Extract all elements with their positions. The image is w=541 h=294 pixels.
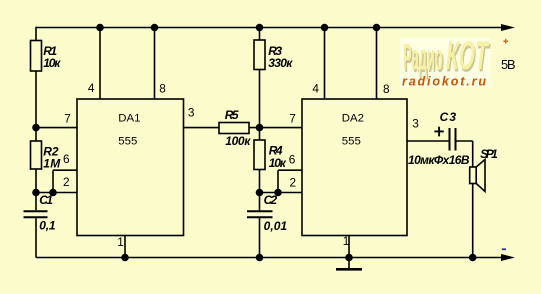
label C2 0,01	[264, 193, 288, 233]
svg-text:DA2: DA2	[342, 113, 364, 125]
wire: DA2 pin 6 stub	[278, 169, 302, 171]
svg-text:10к: 10к	[269, 156, 287, 170]
svg-text:8: 8	[159, 82, 166, 96]
pin label 4 DA2	[312, 81, 319, 95]
power label 5В	[501, 57, 516, 72]
label SP1	[480, 147, 498, 161]
svg-text:C2: C2	[264, 193, 278, 207]
resistor R1	[31, 41, 42, 72]
wire: left drop from rail to R1	[35, 27, 37, 41]
svg-text:КОТ: КОТ	[443, 33, 491, 78]
arrowhead bottom rail	[501, 254, 515, 261]
pin label 8	[159, 82, 166, 96]
svg-text:C3: C3	[440, 110, 457, 124]
pin label 1 DA2	[343, 234, 350, 248]
node junction pin6 link	[49, 189, 57, 197]
svg-text:1M: 1M	[43, 156, 61, 170]
svg-text:2: 2	[290, 175, 297, 189]
wire: R1 bottom to pin7 node	[35, 71, 37, 128]
node junction pin6 link DA2	[274, 189, 282, 197]
pin 1 DA2 wire	[348, 236, 350, 258]
svg-text:radiokot.ru: radiokot.ru	[402, 74, 486, 88]
svg-text:8: 8	[383, 82, 390, 96]
pin label 4	[88, 81, 95, 95]
pin 4 DA1 wire	[99, 28, 101, 100]
svg-text:555: 555	[342, 136, 361, 148]
svg-text:DA1: DA1	[118, 113, 140, 125]
pin label 3 DA2	[412, 116, 419, 130]
svg-text:1: 1	[117, 235, 124, 249]
svg-text:330к: 330к	[268, 56, 293, 70]
power label + (plus)	[503, 39, 508, 44]
pin label 1	[117, 235, 124, 249]
label R1 10к	[43, 44, 61, 70]
pin label 6	[63, 152, 70, 166]
capacitor C1	[24, 193, 48, 258]
pin label 7	[64, 112, 71, 126]
svg-text:10к: 10к	[43, 56, 61, 70]
pin 4 DA2 wire	[324, 28, 326, 100]
node junction R5/R3/R4	[256, 124, 264, 132]
svg-text:4: 4	[88, 81, 95, 95]
label C3	[440, 110, 457, 124]
svg-text:7: 7	[64, 112, 71, 126]
node junction R1/R2/pin7	[32, 124, 40, 132]
pin 1 DA1 wire	[124, 236, 126, 258]
svg-text:6: 6	[63, 152, 70, 166]
capacitor C3	[450, 128, 456, 151]
label R2 1M	[43, 144, 61, 170]
wire: C3 to SP1	[457, 140, 473, 142]
capacitor C2	[247, 193, 273, 258]
svg-text:1: 1	[343, 234, 350, 248]
svg-text:2: 2	[63, 175, 70, 189]
wire: pin6 link vertical DA2	[277, 170, 279, 192]
wire: DA1 pin3 to R5	[184, 127, 219, 129]
arrowhead top rail	[501, 24, 515, 31]
wire: R5 to DA2 pin7	[249, 127, 303, 129]
wire: SP1 to bottom rail	[472, 184, 474, 258]
wire: pin6 link vertical	[52, 170, 54, 192]
svg-text:R5: R5	[225, 108, 239, 122]
label C1 0,1	[39, 193, 56, 233]
svg-text:C1: C1	[39, 193, 53, 207]
watermark radiokot logo	[400, 33, 493, 88]
node junction rail/pin4 DA2	[321, 24, 329, 32]
svg-text:Радио: Радио	[403, 36, 443, 77]
node junction rail/pin8 DA1	[151, 24, 159, 32]
label R5 100к	[225, 108, 251, 148]
resistor R5	[219, 123, 249, 134]
pin 8 DA1 wire	[154, 28, 156, 100]
wire: node to DA1 pin 7	[36, 127, 77, 129]
node junction C2/rail	[256, 254, 264, 262]
wire: pin2 net to DA2	[260, 192, 303, 194]
node junction SP1/rail	[469, 254, 477, 262]
pin label 7 DA2	[289, 112, 296, 126]
label R3 330к	[268, 44, 293, 70]
pin label 6 DA2	[289, 153, 296, 167]
svg-text:6: 6	[289, 153, 296, 167]
svg-text:0,1: 0,1	[39, 219, 56, 233]
pin label 2 DA2	[290, 175, 297, 189]
node junction rail/pin4 DA1	[96, 24, 104, 32]
pin label 2	[63, 175, 70, 189]
wire: top +5V rail	[36, 27, 503, 29]
svg-text:3: 3	[188, 106, 195, 120]
svg-text:0,01: 0,01	[264, 219, 288, 233]
node junction rail/R3	[256, 24, 264, 32]
svg-text:7: 7	[289, 112, 296, 126]
resistor R3	[254, 28, 265, 129]
node junction rail/pin8 DA2	[373, 24, 381, 32]
wire: DA2 pin3 to C3	[407, 140, 449, 142]
svg-text:555: 555	[118, 136, 137, 148]
svg-text:100к: 100к	[225, 134, 251, 148]
node junction pin1 DA2/ground	[345, 254, 353, 262]
power label - (minus)	[502, 248, 506, 250]
svg-text:4: 4	[312, 81, 319, 95]
pin label 8 DA2	[383, 82, 390, 96]
resistor R2	[31, 128, 42, 193]
node junction R2/C1/pin2	[32, 189, 40, 197]
polarity + for C3	[434, 127, 443, 137]
wire: down to SP1	[472, 141, 474, 167]
wire: bottom rail	[36, 257, 503, 259]
label R4 10к	[269, 144, 287, 171]
svg-text:5В: 5В	[501, 57, 516, 72]
pin label 3	[188, 106, 195, 120]
value label 10мкФх16В	[408, 153, 470, 167]
node junction pin1 DA1/rail	[121, 254, 129, 262]
resistor R4	[254, 128, 265, 193]
node junction R4/C2/pin2 DA2	[256, 189, 264, 197]
svg-text:3: 3	[412, 116, 419, 130]
ground	[336, 258, 362, 270]
speaker SP1	[470, 160, 485, 192]
wire: DA1 pin 6 stub	[53, 169, 77, 171]
op-amp U1: timer DA1 555	[77, 99, 184, 236]
svg-text:10мкФх16В: 10мкФх16В	[408, 153, 470, 167]
op-amp U2: timer DA2 555	[302, 99, 407, 236]
wire: pin2 net to DA1	[36, 192, 77, 194]
pin 8 DA2 wire	[376, 28, 378, 100]
svg-text:SP1: SP1	[480, 147, 498, 161]
